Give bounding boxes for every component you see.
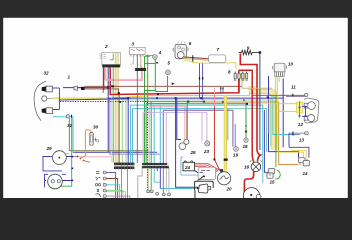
- svg-text:3: 3: [132, 42, 135, 47]
- wire comp30 stub: [90, 130, 93, 133]
- svg-text:29: 29: [46, 146, 53, 151]
- ignition coil and plug: [195, 176, 214, 198]
- brake switch 30: [90, 133, 99, 146]
- regulator box: [198, 167, 215, 179]
- wire red thin battery riser: [214, 93, 219, 171]
- svg-text:30: 30: [93, 125, 99, 130]
- wire headlight blue feed: [59, 99, 128, 100]
- svg-text:13: 13: [299, 138, 305, 143]
- wire comp15 blue riser: [264, 110, 268, 172]
- wire blue bus: [73, 68, 299, 158]
- svg-text:7: 7: [217, 47, 220, 52]
- lamp 4: [153, 55, 158, 64]
- lamp 5: [166, 70, 175, 85]
- svg-text:11: 11: [291, 85, 296, 90]
- svg-text:10: 10: [288, 62, 294, 67]
- headlight 32 shell: [34, 81, 46, 120]
- svg-text:8: 8: [228, 70, 231, 75]
- number labels: [44, 41, 309, 192]
- fuse block 8: [234, 72, 248, 81]
- resistor 9: [239, 50, 261, 54]
- horn 29: [53, 151, 67, 165]
- connector row2: [142, 162, 169, 169]
- wire blue drops comp7: [200, 63, 203, 100]
- wire switch3 drops: [136, 55, 138, 164]
- svg-text:23: 23: [203, 149, 210, 154]
- wire yellow bus: [52, 92, 249, 98]
- headlight high beam bulb: [42, 86, 60, 92]
- wire tail light yellow taps: [273, 104, 298, 112]
- wire green bottom bends: [122, 163, 128, 198]
- wire comp7 stub pins: [221, 88, 223, 93]
- wire green bus B to lamp 18: [146, 104, 246, 163]
- connector 13 bullet: [293, 132, 308, 136]
- svg-text:15: 15: [270, 180, 276, 185]
- junction dots: [72, 85, 269, 181]
- svg-text:2: 2: [104, 44, 108, 49]
- svg-text:14: 14: [303, 171, 309, 176]
- wire red main feed bus: [110, 68, 239, 95]
- wire comp13 lead: [289, 133, 305, 134]
- wire comp11 lead: [252, 94, 305, 96]
- wire right column yellow: [278, 96, 304, 158]
- wire battery black lead: [194, 170, 204, 176]
- wire left drop orange: [85, 130, 90, 156]
- wire battery lightblue: [181, 157, 198, 175]
- wire blue riser comp25: [176, 98, 199, 187]
- wire green lamp4 link: [145, 59, 168, 92]
- wire starter red down: [244, 172, 253, 195]
- tail light 12: [297, 98, 319, 123]
- wire green drop comp25: [186, 102, 188, 141]
- ignition switch 6: [173, 42, 189, 59]
- svg-text:12: 12: [298, 122, 304, 127]
- lamp 23: [205, 141, 210, 146]
- svg-text:24: 24: [184, 165, 191, 170]
- wire light green bus: [122, 99, 270, 163]
- svg-text:1: 1: [68, 75, 71, 80]
- svg-text:19: 19: [233, 153, 239, 158]
- connector 11 bullet: [293, 94, 308, 97]
- switch 3 body: [130, 47, 153, 71]
- flasher relay 10: [272, 63, 286, 94]
- wire speedo brown pair: [85, 86, 243, 93]
- battery 24: [183, 161, 205, 178]
- wire lower device links: [62, 174, 73, 180]
- wire brown drop: [118, 93, 120, 162]
- wire yellow pair to horn20: [224, 95, 227, 170]
- wire pink cross run: [77, 156, 111, 158]
- coil 7: [209, 55, 226, 63]
- headlight parking lamp: [42, 96, 53, 101]
- svg-text:18: 18: [243, 144, 249, 149]
- fan row glyphs and bullets: [95, 171, 106, 198]
- junction cluster left: [73, 156, 90, 163]
- wire cyan bus: [131, 105, 263, 170]
- wire lilac bus: [143, 112, 207, 163]
- connector 1 speedo: [74, 86, 85, 90]
- wire dashed ground run: [60, 102, 147, 190]
- bottom bullet connectors: [147, 190, 171, 196]
- wire row2 below drops: [147, 167, 149, 190]
- svg-text:32: 32: [44, 71, 50, 76]
- wire lower blue loop: [45, 174, 49, 187]
- wire right column cyan: [273, 96, 300, 135]
- svg-text:9: 9: [247, 46, 250, 51]
- page sheet: [3, 18, 348, 198]
- switch unit 15: [267, 169, 280, 179]
- wire cyan bottom run: [154, 170, 263, 189]
- wire tan coil link: [242, 79, 272, 88]
- wire lavender bus: [133, 109, 228, 163]
- wire teal right column: [228, 108, 267, 152]
- svg-text:31: 31: [67, 123, 73, 128]
- wire left tan stub: [66, 152, 69, 154]
- svg-text:6: 6: [189, 41, 192, 46]
- wire comp14 nested loops: [289, 133, 309, 158]
- wire battery red leads: [195, 163, 220, 171]
- sender unit 29b: [48, 174, 63, 189]
- wire green bus A: [145, 56, 204, 163]
- starter motor 16: [250, 161, 261, 172]
- wire orange bus: [204, 102, 299, 165]
- wire left drop green: [58, 118, 72, 186]
- wire speedo blue lead: [63, 87, 108, 89]
- horn rear 20: [218, 169, 231, 185]
- svg-text:20: 20: [226, 187, 233, 192]
- wire pink bus: [149, 107, 186, 163]
- wire right column green: [275, 96, 277, 167]
- flasher 25: [179, 139, 189, 149]
- lamp 18: [244, 138, 248, 142]
- wire olive cross run: [69, 118, 148, 151]
- wire yellow band harness: [115, 56, 118, 163]
- connector row1: [114, 162, 134, 170]
- svg-text:4: 4: [158, 50, 162, 55]
- wire horn blue loop: [43, 157, 73, 171]
- wire green switch3 long: [147, 55, 149, 102]
- wire thick red resistor run: [240, 54, 260, 161]
- wire yellow band right: [249, 92, 274, 151]
- headlight low beam bulb: [42, 88, 60, 114]
- wire pink right column: [187, 103, 270, 133]
- wire pink riser: [214, 88, 216, 107]
- wire headlight cyan: [53, 117, 73, 153]
- lamp 19: [234, 147, 239, 152]
- wire blue drop to row1: [127, 98, 129, 163]
- wire switch2 drops: [102, 68, 105, 94]
- generator flywheel: [243, 188, 261, 204]
- wire fan row harness bends: [106, 173, 116, 199]
- wire comp10 blue drop: [269, 76, 284, 98]
- wire navy resistor drop: [259, 53, 261, 151]
- switch 2 body: [100, 53, 121, 68]
- wire pink handlebar link: [105, 66, 143, 80]
- svg-text:25: 25: [190, 150, 197, 155]
- svg-text:5: 5: [168, 61, 171, 66]
- wire purple bus: [163, 110, 233, 163]
- wire row2 gray U: [138, 167, 142, 198]
- switch unit 14: [299, 158, 310, 166]
- ignition 6 harness: [184, 55, 236, 69]
- wire gray drop to row1: [125, 100, 127, 163]
- connector 31: [67, 115, 72, 118]
- svg-text:16: 16: [244, 165, 250, 170]
- wire thick red fuse run: [239, 70, 254, 162]
